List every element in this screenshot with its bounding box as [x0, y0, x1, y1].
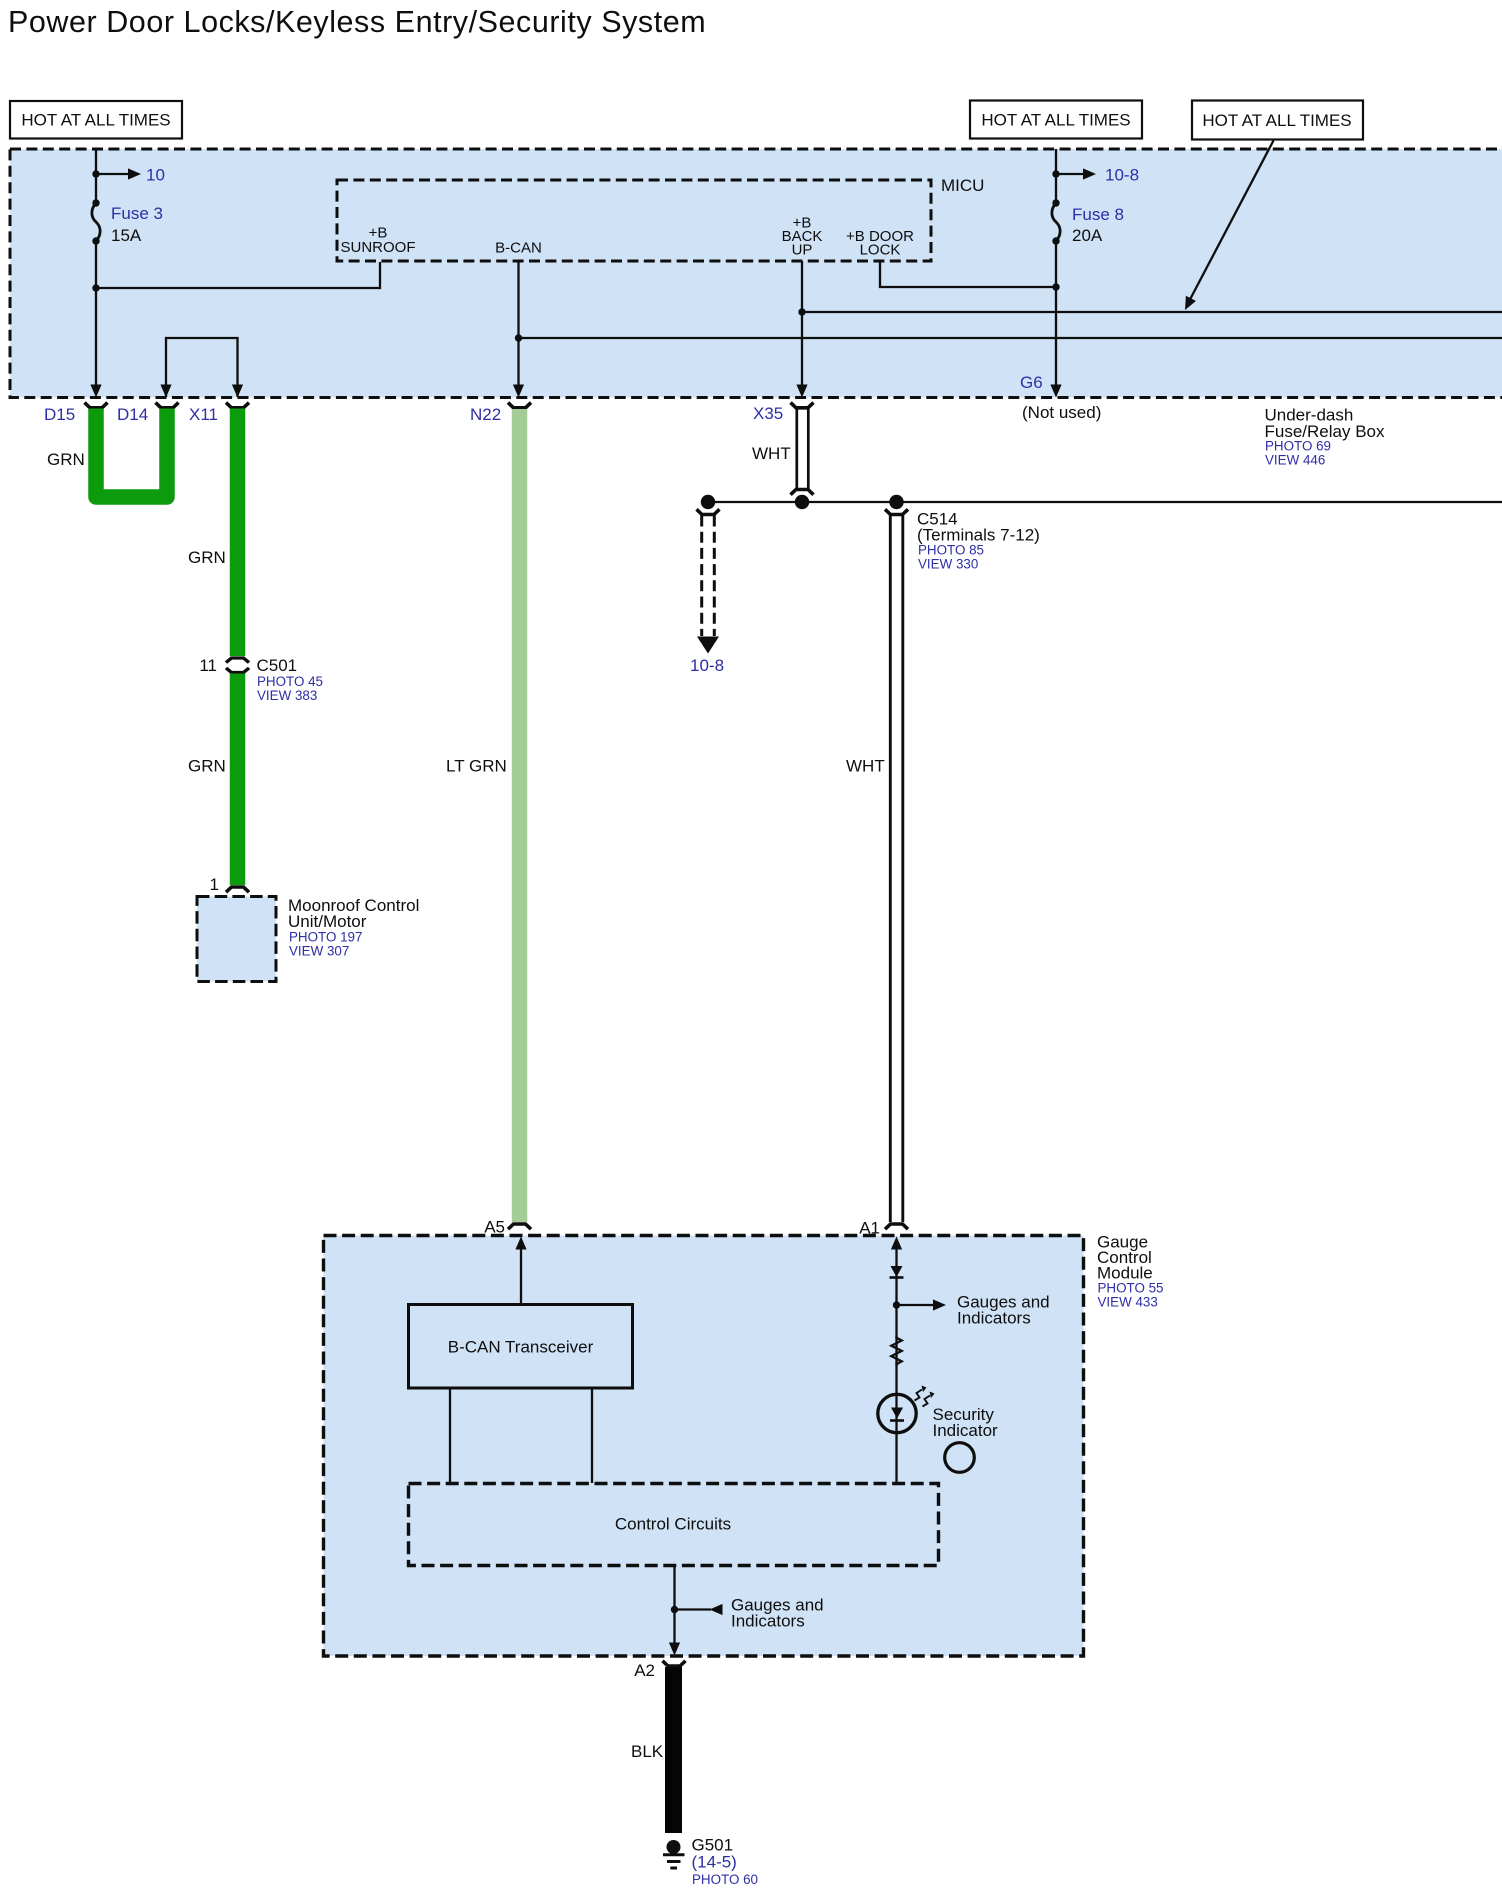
- svg-text:VIEW 446: VIEW 446: [1265, 453, 1325, 468]
- svg-text:X11: X11: [189, 405, 218, 424]
- ground G501: [663, 1840, 685, 1868]
- svg-text:Indicators: Indicators: [731, 1612, 805, 1631]
- gauge control module box: [324, 1236, 1084, 1657]
- wire fuse8 column lower: [1055, 241, 1057, 386]
- resistor R1: [891, 1336, 901, 1366]
- connector C501 lower bracket: [226, 668, 249, 673]
- svg-text:GRN: GRN: [188, 757, 226, 776]
- svg-text:GRN: GRN: [188, 548, 226, 567]
- arrowhead A2 down: [669, 1643, 680, 1656]
- svg-text:Indicator: Indicator: [933, 1421, 999, 1440]
- svg-text:SUNROOF: SUNROOF: [341, 239, 416, 256]
- svg-text:D15: D15: [44, 405, 75, 424]
- connector bracket X35: [791, 403, 814, 408]
- node junction left: [701, 495, 715, 509]
- arrowhead page 10-8: [1083, 168, 1096, 179]
- wire fuse3 column upper: [95, 149, 97, 203]
- svg-text:HOT AT ALL TIMES: HOT AT ALL TIMES: [21, 111, 170, 130]
- svg-text:GRN: GRN: [47, 450, 85, 469]
- node back-up junction: [798, 308, 805, 315]
- wire off-page dashed double line: [702, 516, 715, 637]
- svg-text:HOT AT ALL TIMES: HOT AT ALL TIMES: [1202, 111, 1351, 130]
- arrowhead off-page to 10-8: [697, 637, 719, 654]
- wire GRN X11 upper segment: [230, 409, 246, 657]
- svg-text:LT GRN: LT GRN: [446, 757, 507, 776]
- connector bracket A2: [663, 1661, 686, 1666]
- wire BLK A2 to ground: [665, 1667, 682, 1833]
- label Gauges and Indicators lower: [731, 1596, 824, 1631]
- svg-text:VIEW 433: VIEW 433: [1098, 1295, 1158, 1310]
- connector bracket A5: [508, 1224, 531, 1229]
- wire A5 into B-CAN transceiver: [520, 1247, 522, 1304]
- wire branch to page 10: [96, 173, 132, 175]
- svg-text:1: 1: [210, 875, 219, 894]
- wire control circuits output: [673, 1566, 675, 1645]
- LED security indicator: [878, 1394, 916, 1432]
- svg-text:MICU: MICU: [941, 176, 984, 195]
- terminal label +B SUNROOF: [341, 225, 416, 257]
- svg-text:15A: 15A: [111, 226, 142, 245]
- connector bracket X35 wire bottom: [791, 490, 814, 495]
- wire transceiver leg left: [449, 1388, 451, 1483]
- wire A1 internal column: [895, 1247, 897, 1483]
- svg-text:PHOTO 69: PHOTO 69: [1265, 439, 1331, 454]
- wire to +B SUNROOF: [96, 262, 380, 288]
- svg-text:PHOTO 45: PHOTO 45: [257, 674, 323, 689]
- annotation arrow from HOT box 3: [1185, 141, 1274, 311]
- svg-text:11: 11: [199, 656, 217, 675]
- LED light rays: [915, 1386, 935, 1407]
- fuse F3 15A: [92, 199, 100, 244]
- svg-text:VIEW 307: VIEW 307: [289, 944, 349, 959]
- svg-text:10-8: 10-8: [690, 656, 724, 675]
- svg-text:A2: A2: [634, 1661, 655, 1680]
- svg-text:D14: D14: [117, 405, 148, 424]
- connector bracket N22: [508, 403, 531, 408]
- node B-CAN junction: [515, 334, 522, 341]
- arrowhead X11: [232, 385, 243, 398]
- label Under-dash Fuse/Relay Box: [1265, 406, 1385, 468]
- arrowhead D14: [160, 385, 171, 398]
- terminal label +B BACK UP: [782, 215, 823, 259]
- svg-text:PHOTO 55: PHOTO 55: [1098, 1281, 1164, 1296]
- arrowhead N22: [513, 385, 524, 398]
- connector bracket X11: [226, 403, 249, 408]
- node gauges branch: [893, 1301, 900, 1308]
- svg-text:VIEW 330: VIEW 330: [918, 557, 978, 572]
- diode D1: [890, 1266, 904, 1278]
- svg-text:PHOTO 60: PHOTO 60: [692, 1872, 758, 1887]
- label Gauges and Indicators: [957, 1293, 1050, 1328]
- label Moonroof Control Unit/Motor: [288, 896, 419, 959]
- wire junction bus y=502: [708, 501, 1502, 503]
- wire +B DOOR LOCK to fuse8: [880, 262, 1056, 287]
- connector bracket moonroof pin 1: [226, 887, 249, 892]
- arrowhead D15 feed: [90, 385, 101, 398]
- svg-text:WHT: WHT: [752, 444, 791, 463]
- arrowhead gauges right: [933, 1299, 946, 1310]
- svg-text:Power Door Locks/Keyless Entry: Power Door Locks/Keyless Entry/Security …: [8, 5, 706, 39]
- op block Control Circuits: [409, 1484, 939, 1566]
- arrowhead G6: [1050, 385, 1061, 398]
- wire B-CAN bus to right edge: [519, 337, 1502, 339]
- arrowhead A5 up: [515, 1237, 526, 1250]
- wire transceiver leg right: [591, 1388, 593, 1483]
- svg-text:N22: N22: [470, 405, 501, 424]
- svg-text:B-CAN: B-CAN: [495, 240, 542, 257]
- svg-text:A5: A5: [484, 1218, 505, 1237]
- node junction mid: [795, 495, 809, 509]
- arrowhead X35 feed: [796, 385, 807, 398]
- wire branch to page 10-8: [1056, 173, 1087, 175]
- connector bracket off-page wire top: [697, 509, 720, 514]
- svg-text:Fuse 3: Fuse 3: [111, 204, 163, 223]
- label Gauge Control Module: [1097, 1233, 1164, 1310]
- svg-text:10-8: 10-8: [1105, 166, 1139, 185]
- wire LT GRN N22 to A5: [512, 409, 528, 1222]
- node door-lock/fuse8 junction: [1052, 283, 1059, 290]
- svg-text:X35: X35: [753, 404, 783, 423]
- wire D14-X11 jumper: [166, 338, 238, 397]
- wire branch to gauges: [897, 1304, 938, 1306]
- wire fuse3 column lower: [95, 241, 97, 386]
- svg-text:PHOTO 197: PHOTO 197: [289, 930, 362, 945]
- connector bracket D15: [85, 403, 108, 408]
- svg-text:G6: G6: [1020, 373, 1043, 392]
- svg-text:PHOTO 85: PHOTO 85: [918, 543, 984, 558]
- indicator lamp circle: [945, 1443, 975, 1473]
- node gauges branch lower: [671, 1606, 678, 1613]
- svg-text:B-CAN Transceiver: B-CAN Transceiver: [448, 1338, 594, 1357]
- op block B-CAN Transceiver: [409, 1305, 633, 1389]
- wire fuse8 column upper: [1055, 149, 1057, 203]
- node fuse3 lower junction: [92, 284, 99, 291]
- power label box 3 HOT AT ALL TIMES: [1192, 101, 1363, 140]
- label Security Indicator: [933, 1405, 999, 1440]
- arrowhead gauges left: [710, 1604, 723, 1615]
- svg-text:Fuse 8: Fuse 8: [1072, 205, 1124, 224]
- wire back-up bus to right edge: [802, 311, 1502, 313]
- connector bracket D14: [156, 403, 179, 408]
- svg-text:(Not used): (Not used): [1022, 403, 1101, 422]
- connector bracket A1: [885, 1224, 908, 1229]
- svg-text:LOCK: LOCK: [860, 242, 901, 259]
- svg-text:WHT: WHT: [846, 757, 885, 776]
- power label box 1 HOT AT ALL TIMES: [10, 101, 182, 139]
- svg-text:Control Circuits: Control Circuits: [615, 1515, 731, 1534]
- node fuse3 top junction: [92, 170, 99, 177]
- svg-text:Unit/Motor: Unit/Motor: [288, 912, 367, 931]
- node fuse8 top junction: [1052, 170, 1059, 177]
- arrowhead page 10: [128, 168, 141, 179]
- under-dash fuse/relay box (blue area): [10, 149, 1502, 398]
- svg-text:(14-5): (14-5): [692, 1853, 737, 1872]
- arrowhead A1 up: [891, 1237, 902, 1250]
- wire WHT C514 to A1 (double line): [890, 516, 903, 1223]
- wire GRN U-loop D15 to D14: [96, 409, 167, 498]
- svg-text:UP: UP: [792, 242, 813, 259]
- svg-text:20A: 20A: [1072, 226, 1103, 245]
- wire +B BACK UP column: [801, 261, 803, 386]
- svg-text:VIEW 383: VIEW 383: [257, 688, 317, 703]
- svg-text:10: 10: [146, 166, 165, 185]
- connector C501 upper bracket: [226, 658, 249, 663]
- wire GRN X11 lower segment: [230, 674, 246, 886]
- svg-text:Indicators: Indicators: [957, 1309, 1031, 1328]
- svg-text:BLK: BLK: [631, 1742, 664, 1761]
- power label box 2 HOT AT ALL TIMES: [970, 101, 1142, 139]
- terminal label +B DOOR LOCK: [846, 228, 914, 259]
- MICU inner dashed box: [337, 180, 931, 261]
- node junction right: [889, 495, 903, 509]
- wire branch to gauges lower: [675, 1608, 712, 1610]
- wire WHT X35 (double line): [797, 409, 809, 490]
- svg-text:HOT AT ALL TIMES: HOT AT ALL TIMES: [981, 111, 1130, 130]
- moonroof control unit/motor box: [197, 897, 276, 982]
- connector bracket C514 top: [885, 509, 908, 514]
- wire B-CAN column: [517, 261, 519, 386]
- svg-text:C501: C501: [257, 656, 298, 675]
- fuse F8 20A: [1052, 199, 1060, 244]
